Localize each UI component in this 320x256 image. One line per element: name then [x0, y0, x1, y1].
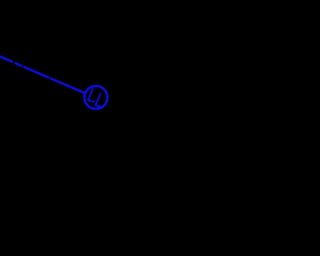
wire segment 2 (short dash) — [15, 63, 21, 66]
wire segment 3 (long dash) — [24, 67, 48, 77]
wire segment 1 (leader dash from left edge) — [0, 56, 12, 62]
node circle (annotation ring) — [84, 86, 107, 109]
label L2 (second italic L glyph) — [95, 94, 101, 107]
wire segment 4 (dash meeting circle) — [51, 79, 85, 94]
label L1 (first italic L glyph) — [88, 89, 94, 102]
